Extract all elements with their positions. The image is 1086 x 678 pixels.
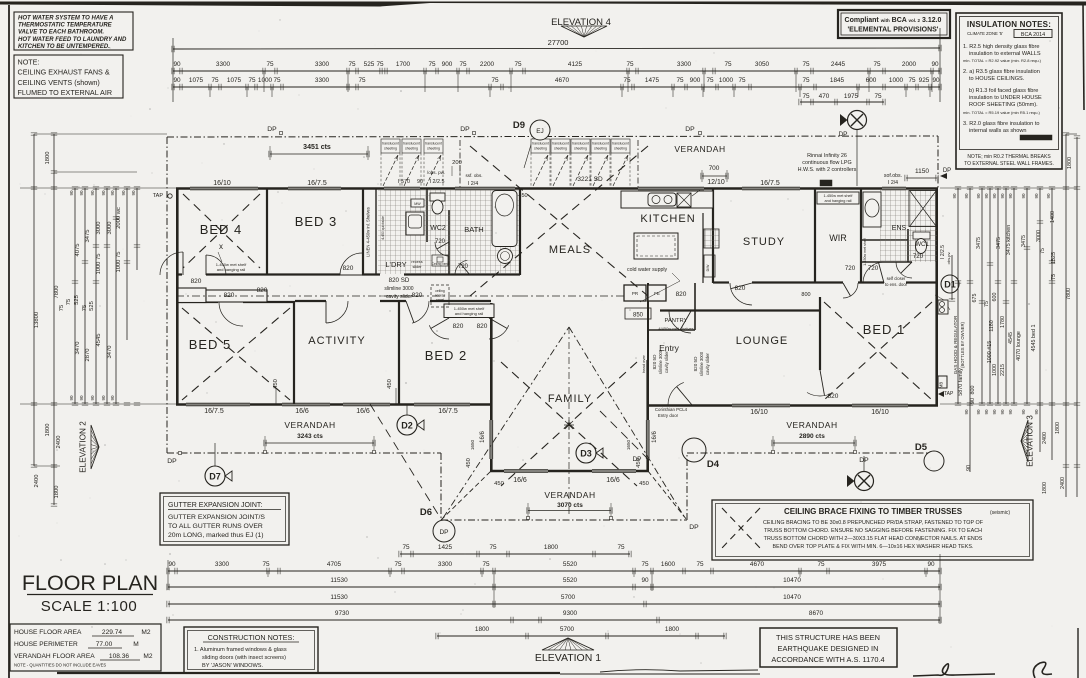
svg-text:90: 90 [417,179,423,185]
scan speckles [357,108,358,109]
svg-text:I 2/4: I 2/4 [468,181,479,187]
svg-text:75: 75 [873,61,881,68]
svg-text:continuous flow LPG: continuous flow LPG [802,160,851,166]
svg-text:CONSTRUCTION NOTES:: CONSTRUCTION NOTES: [208,633,295,642]
page border left [8,5,10,678]
svg-text:820: 820 [343,265,354,272]
svg-text:90: 90 [976,193,981,199]
verandah roofline bottom-right edge [687,452,938,454]
svg-text:90: 90 [90,190,95,196]
svg-text:VERANDAH FLOOR AREA: VERANDAH FLOOR AREA [14,653,95,660]
verandah roofline top edge [167,136,938,137]
svg-text:525: 525 [364,61,375,68]
svg-text:/obs. pw.: /obs. pw. [427,170,445,175]
bottom dim row 4 [168,619,940,621]
svg-text:90: 90 [110,395,115,401]
svg-text:DP: DP [685,126,695,133]
svg-text:9300: 9300 [563,610,578,617]
svg-text:2200: 2200 [480,61,495,68]
family room east wall [646,360,649,471]
bed2 robe box [444,304,494,318]
svg-text:TO ALL GUTTER RUNS OVER: TO ALL GUTTER RUNS OVER [168,523,263,530]
svg-text:self closer: self closer [887,276,906,281]
exterior wall: bottom left wing [176,403,492,406]
fridge recess wall [702,213,704,283]
svg-text:4670: 4670 [555,77,570,84]
svg-text:access: access [435,294,446,298]
svg-text:1975: 1975 [844,93,859,100]
svg-text:D2: D2 [401,421,413,431]
svg-text:11530: 11530 [330,594,348,601]
svg-text:sheeting: sheeting [384,147,397,151]
svg-text:1800: 1800 [45,424,51,437]
svg-text:90: 90 [79,190,84,196]
dimension row A (top) [173,70,940,72]
svg-text:1000 75: 1000 75 [116,252,122,273]
svg-text:translucent: translucent [592,142,609,146]
svg-text:800: 800 [970,386,976,395]
svg-text:75: 75 [358,77,366,84]
window bath obscure [455,187,515,191]
svg-text:4-450 quickside: 4-450 quickside [381,216,385,240]
page border right [1083,3,1084,110]
svg-text:DP: DP [838,131,847,138]
svg-text:STUDY: STUDY [743,236,785,248]
svg-text:3050: 3050 [755,61,770,68]
svg-text:1845: 1845 [830,77,845,84]
svg-text:108.36: 108.36 [109,653,130,660]
svg-text:FAMILY: FAMILY [548,393,592,405]
svg-text:75: 75 [273,77,281,84]
svg-text:HOT WATER FEED TO LAUNDRY AND: HOT WATER FEED TO LAUNDRY AND [18,37,127,43]
MW appliance box [411,199,424,207]
svg-text:3000: 3000 [107,222,113,235]
svg-text:1800: 1800 [1067,157,1073,169]
wc1 toilet [913,232,930,239]
svg-text:75: 75 [514,61,522,68]
wall lounge/bed1 [819,297,821,370]
svg-text:11530: 11530 [330,577,348,584]
svg-text:450: 450 [639,481,649,487]
ceiling brace box [712,500,1033,560]
svg-text:3470: 3470 [107,346,113,359]
svg-text:MEALS: MEALS [549,244,591,256]
svg-text:D1: D1 [944,280,956,290]
svg-text:H.W.S. with 2 controllers: H.W.S. with 2 controllers [798,167,857,173]
svg-text:3300: 3300 [315,61,330,68]
svg-text:3243 cts: 3243 cts [297,433,323,440]
marker D3 [576,443,596,463]
svg-text:90: 90 [110,190,115,196]
svg-text:D7: D7 [209,472,221,482]
wc1 south wall [861,261,912,263]
svg-text:insulation to UNDER HOUSE: insulation to UNDER HOUSE [969,95,1042,101]
corridor wall north (bed row bottom) [176,273,182,275]
svg-text:450: 450 [273,379,279,389]
svg-text:INSULATION NOTES:: INSULATION NOTES: [967,20,1051,29]
svg-text:1000: 1000 [992,364,998,376]
verandah hip diagonal right [648,471,687,520]
ceiling brace X symbol [722,508,760,548]
pantry walls [647,283,649,360]
svg-text:27700: 27700 [548,38,569,47]
svg-text:4670: 4670 [750,561,765,568]
svg-text:1000: 1000 [889,77,904,84]
svg-text:90: 90 [90,395,95,401]
svg-text:75: 75 [908,77,916,84]
bracing X family [501,362,637,486]
svg-text:4705: 4705 [327,561,342,568]
door wc2/bath arcs [435,242,449,256]
svg-text:WC1: WC1 [915,242,929,248]
verandah corner rise right [686,453,688,520]
svg-text:FLOOR PLAN: FLOOR PLAN [22,571,158,595]
svg-text:BEND OVER TOP PLATE & FIX: BEND OVER TOP PLATE & FIX WITH MIN. 6—10… [773,544,974,550]
svg-text:600: 600 [866,77,877,84]
svg-text:HOUSE PERIMETER: HOUSE PERIMETER [14,641,78,648]
svg-text:translucent: translucent [572,142,589,146]
wall activity/bed2 [398,301,400,404]
svg-text:ELEVATION 2: ELEVATION 2 [79,421,88,473]
svg-text:THERMOSTATIC TEMPERATURE: THERMOSTATIC TEMPERATURE [18,23,113,29]
svg-text:WIR: WIR [829,233,847,243]
svg-text:THIS STRUCTURE HAS BEEN: THIS STRUCTURE HAS BEEN [776,633,880,642]
svg-text:90: 90 [1008,193,1013,199]
svg-text:90: 90 [69,190,74,196]
svg-text:90: 90 [121,190,126,196]
svg-text:16/10: 16/10 [750,409,768,416]
window 16/6 family e [592,469,636,473]
window 16/7.5 bed5 [186,403,250,407]
wall kitchen/study [712,188,714,283]
svg-text:BED 1: BED 1 [863,322,906,337]
svg-text:1-450w met shelf: 1-450w met shelf [863,238,867,265]
svg-text:75: 75 [817,561,825,568]
marker EJ circle [530,120,550,140]
svg-text:TAP: TAP [944,391,954,397]
svg-text:PR: PR [632,291,639,296]
hall centre dash line [176,295,520,297]
svg-text:recess: recess [411,260,422,264]
svg-text:3. R2.0 glass fibre insulatio: 3. R2.0 glass fibre insulation to [963,121,1040,127]
svg-text:HOT WATER SYSTEM TO HAVE A: HOT WATER SYSTEM TO HAVE A [18,16,113,22]
svg-text:90: 90 [984,193,989,199]
bracing X meals/verandah [470,146,648,296]
svg-text:slimline 3000: slimline 3000 [699,351,704,376]
svg-text:1525: 1525 [1051,252,1057,264]
kitchen stove [677,193,691,207]
svg-text:1800: 1800 [475,626,490,633]
svg-text:Rinnai Infinity 26: Rinnai Infinity 26 [807,153,847,159]
window family east side [646,420,650,459]
svg-text:translucent: translucent [532,142,549,146]
svg-text:820: 820 [412,292,423,299]
svg-text:75: 75 [394,561,402,568]
EJ leader [524,138,533,168]
ceiling access panel [431,285,449,307]
svg-text:16/10: 16/10 [871,409,889,416]
kitchen island [634,233,678,259]
PR FE boxes [624,285,646,301]
svg-text:2400: 2400 [1042,432,1048,444]
svg-text:LOUNGE: LOUNGE [736,335,788,347]
svg-text:Compliant with BCA vol. 2 3.12: Compliant with BCA vol. 2 3.12.0 [845,17,942,24]
svg-text:2400: 2400 [1060,477,1066,489]
svg-text:I 2/4: I 2/4 [888,180,898,186]
svg-text:16/6: 16/6 [480,431,486,443]
svg-text:KITCHEN: KITCHEN [640,213,695,225]
svg-text:BED 3: BED 3 [295,214,338,229]
door bed4 robe doors [206,255,226,275]
left dim horizontals [34,133,167,135]
door study [730,283,752,305]
svg-text:Entry: Entry [659,343,680,353]
svg-text:720: 720 [868,265,879,272]
svg-text:90: 90 [984,409,989,415]
window laundry high [384,187,420,191]
wall bath east [519,188,521,275]
svg-text:16/6: 16/6 [295,408,309,415]
door bed3 [340,253,362,275]
svg-text:12/10: 12/10 [707,179,725,186]
svg-text:820: 820 [257,287,268,294]
svg-text:2. a) R3.5 glass fibre insula: 2. a) R3.5 glass fibre insulation [963,69,1040,75]
elevation 1 label [542,638,594,650]
svg-text:BATH: BATH [464,225,483,234]
svg-text:90: 90 [79,395,84,401]
svg-text:BY 'JASON' WINDOWS.: BY 'JASON' WINDOWS. [202,663,264,669]
svg-text:1800: 1800 [544,544,559,551]
svg-text:90: 90 [173,77,181,84]
bracing X bed4 [183,194,260,268]
svg-text:10470: 10470 [783,577,801,584]
svg-text:16/6: 16/6 [513,477,527,484]
svg-text:NOTE; min R0.2 THERMAL BRE: NOTE; min R0.2 THERMAL BREAKS [967,154,1051,160]
svg-text:b) R1.3 foil faced glass fibre: b) R1.3 foil faced glass fibre [969,88,1038,94]
svg-text:75: 75 [491,77,499,84]
svg-text:ACTIVITY: ACTIVITY [308,335,366,347]
svg-text:16/6: 16/6 [606,477,620,484]
marker X bottom [855,472,874,491]
door lounge from hall [669,311,691,333]
svg-text:1800: 1800 [1042,482,1048,494]
svg-text:BCA 2014: BCA 2014 [1021,32,1045,38]
svg-text:75: 75 [66,299,72,305]
svg-text:75: 75 [266,61,274,68]
svg-text:1000 #15: 1000 #15 [987,341,993,363]
svg-text:TO EXTERNAL STEEL WALL FRA: TO EXTERNAL STEEL WALL FRAMES. [964,161,1054,167]
svg-text:75: 75 [738,77,746,84]
verandah corner diagonals right [600,411,648,459]
svg-text:WC2: WC2 [430,225,446,232]
svg-text:x: x [219,242,223,251]
svg-text:FLUMED TO EXTERNAL AIR: FLUMED TO EXTERNAL AIR [18,88,113,97]
svg-text:D5: D5 [915,442,928,453]
svg-text:90: 90 [131,190,136,196]
right dim column lines [951,255,953,300]
verandah corner drop left [440,453,442,520]
svg-text:5520: 5520 [563,561,578,568]
marker D7 [205,466,225,486]
svg-text:90: 90 [173,61,181,68]
svg-text:1780: 1780 [1000,316,1006,328]
svg-text:90: 90 [932,77,940,84]
verandah roofline bottom-centre edge [441,519,687,521]
svg-text:D3: D3 [580,449,592,459]
svg-text:DP: DP [267,126,277,133]
svg-text:77.00: 77.00 [96,641,113,648]
svg-text:TRUSS BOTTOM CHORD. ENSURE: TRUSS BOTTOM CHORD. ENSURE NO SAGGING BE… [764,528,982,534]
note box: insulation notes [956,13,1062,169]
svg-text:3000: 3000 [96,222,102,235]
overall dimension 27700 [173,48,940,49]
svg-text:90: 90 [964,409,969,415]
svg-text:EARTHQUAKE DESIGNED IN: EARTHQUAKE DESIGNED IN [778,644,879,653]
svg-text:translucent: translucent [612,142,629,146]
svg-text:1000: 1000 [719,77,734,84]
svg-text:4125: 4125 [568,61,583,68]
window ens obscure [882,187,906,191]
svg-text:head over: head over [641,354,646,372]
svg-text:90: 90 [931,61,939,68]
svg-text:1800: 1800 [45,152,51,165]
translucent sheeting panels [381,139,400,187]
svg-text:D6: D6 [420,507,432,518]
svg-text:75: 75 [59,305,65,311]
window 16/10 bed1 [852,404,908,408]
bottom dim vertical extensions [167,560,169,590]
svg-text:90: 90 [1000,193,1005,199]
svg-text:3300: 3300 [677,61,692,68]
svg-text:720: 720 [458,264,469,270]
svg-text:8670: 8670 [809,610,824,617]
svg-text:525: 525 [74,295,80,305]
svg-text:translucent: translucent [403,142,420,146]
svg-text:PANTRY: PANTRY [665,318,688,324]
svg-text:CLIMATE ZONE '5': CLIMATE ZONE '5' [967,31,1003,36]
svg-text:1. R2.5 high density glass fi: 1. R2.5 high density glass fibre [963,44,1040,50]
svg-text:M2: M2 [143,653,152,660]
svg-text:800: 800 [801,292,810,298]
svg-text:90: 90 [1008,409,1013,415]
exterior wall: left [176,188,179,404]
svg-text:DP: DP [439,529,448,536]
svg-text:BED 5: BED 5 [189,337,232,352]
svg-text:4545: 4545 [1008,332,1014,344]
svg-text:90: 90 [1034,409,1039,415]
svg-text:90: 90 [1046,193,1051,199]
area table [10,624,161,671]
svg-text:900: 900 [442,61,453,68]
svg-text:D/W: D/W [706,264,710,272]
svg-text:10470: 10470 [783,594,801,601]
svg-text:sliding doors (with insect scr: sliding doors (with insect screens) [202,655,286,661]
verandah roof section boundary right [637,140,639,187]
svg-text:75: 75 [984,301,990,307]
svg-text:16/7.5: 16/7.5 [204,408,224,415]
svg-text:3475 kitchen: 3475 kitchen [1006,225,1012,256]
svg-text:'ELEMENTAL PROVISIONS': 'ELEMENTAL PROVISIONS' [848,27,939,34]
svg-text:cavity slider: cavity slider [386,294,412,300]
window 16/6 family w [504,469,548,473]
svg-text:sheeting: sheeting [405,147,418,151]
svg-text:3475: 3475 [1021,235,1027,247]
family room west wall [490,303,493,471]
wall study/wir [814,188,816,283]
svg-text:ssf. obs.: ssf. obs. [465,173,482,178]
svg-text:3000: 3000 [1036,230,1042,242]
ens/wc1 dividing wall [907,229,909,262]
svg-text:470: 470 [819,93,830,100]
robe nib bed5 [178,288,206,303]
svg-text:900: 900 [690,77,701,84]
svg-text:75: 75 [1051,274,1057,280]
wir shelf box [817,192,859,204]
entry passage wall [647,360,649,405]
svg-text:VERANDAH: VERANDAH [284,420,335,430]
svg-text:7800: 7800 [54,286,60,299]
door entry (corinthian) [668,382,684,405]
svg-text:600: 600 [992,293,998,302]
svg-text:5520: 5520 [563,577,578,584]
svg-text:insulation to external WALLS: insulation to external WALLS [969,51,1041,57]
svg-text:3975: 3975 [872,561,887,568]
bath basin [498,249,513,264]
marker D4 [682,438,706,462]
svg-text:1150: 1150 [915,168,929,175]
svg-text:90: 90 [970,398,976,404]
svg-text:TAP: TAP [153,193,164,199]
svg-text:720: 720 [913,253,924,260]
svg-text:2890 cts: 2890 cts [799,433,825,440]
gas meter boxes right wall [938,300,948,314]
svg-text:720: 720 [845,265,856,272]
svg-text:90: 90 [1021,193,1026,199]
svg-text:16/6: 16/6 [652,431,658,443]
svg-text:75: 75 [802,93,810,100]
svg-text:525: 525 [89,301,95,311]
family hip ridge lines [443,327,569,518]
linen east wall [375,188,377,275]
svg-text:850: 850 [633,313,644,319]
wc2 toilet [430,193,445,201]
bottom dim row 5 [437,635,725,637]
svg-text:translucent: translucent [552,142,569,146]
svg-text:1-450w met shelf: 1-450w met shelf [824,194,854,198]
svg-text:1000 75: 1000 75 [96,254,102,275]
svg-text:75: 75 [724,61,732,68]
svg-text:NOTE - QUANTITIES DO NOT: NOTE - QUANTITIES DO NOT INCLUDE EAVES [14,663,106,668]
gutter expansion joint box [160,493,289,545]
note box: hot water system [14,12,133,50]
svg-text:cavity slider: cavity slider [705,352,710,374]
svg-text:cavity slider: cavity slider [664,350,669,372]
dishwasher [704,255,715,277]
svg-text:Ceiling vent: Ceiling vent [432,262,449,266]
svg-text:1400: 1400 [1050,211,1056,223]
exterior wall: bottom right wing [648,404,938,407]
wall bed3/linen [362,188,364,275]
svg-text:3475: 3475 [996,237,1002,249]
svg-text:MW: MW [414,202,421,206]
svg-text:M2: M2 [141,629,150,636]
svg-text:3300: 3300 [216,61,231,68]
signature scrawl [913,664,995,676]
svg-text:sof.obs.: sof.obs. [884,173,902,179]
ceiling vent box [432,255,448,266]
svg-text:M: M [133,641,139,648]
dimension row B (top) [173,86,940,88]
